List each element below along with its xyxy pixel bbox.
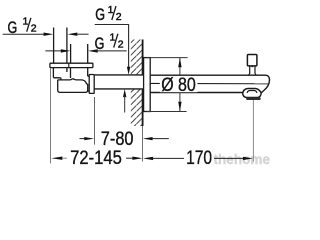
union flange plate <box>50 63 93 67</box>
label G1/2 no.2 <box>95 4 122 24</box>
outlet drop extension line <box>252 100 254 162</box>
knob stem flare <box>248 73 256 75</box>
label G1/2 no.1 <box>8 16 37 37</box>
svg-text:2: 2 <box>118 39 124 51</box>
aerator mesh dark bar <box>246 98 261 101</box>
wall hatch upper <box>131 40 143 75</box>
wall face line lower <box>142 89 144 126</box>
pipe A right thread arrow <box>68 33 78 36</box>
label 3 leader line <box>88 49 98 52</box>
dia 80 bottom extension line <box>147 111 187 113</box>
pipe B left thread arrow <box>45 50 63 52</box>
aerator insert dome <box>247 91 257 93</box>
7-80 dimension arrows <box>80 138 88 140</box>
diverter knob <box>247 55 257 66</box>
supply pipe B <box>70 44 72 63</box>
svg-text:thehome: thehome <box>214 152 271 168</box>
svg-text:Ø 80: Ø 80 <box>161 75 196 96</box>
spout feature line <box>151 82 270 84</box>
supply pipe A <box>53 28 55 64</box>
svg-text:72-145: 72-145 <box>70 148 122 169</box>
label 2 lower thread arrow <box>123 89 126 97</box>
knob stem <box>249 66 251 74</box>
flange plate divider <box>68 63 70 67</box>
aerator housing lower lip <box>243 90 264 97</box>
wall hatch lower <box>131 89 143 126</box>
spout top outline <box>150 75 269 90</box>
svg-text:2: 2 <box>31 23 37 35</box>
dia 80 text <box>160 76 198 92</box>
label G1/2 no.3 <box>95 32 124 53</box>
right union body <box>71 68 88 78</box>
svg-text:1: 1 <box>23 16 29 28</box>
dia 80 top extension line <box>147 57 188 59</box>
svg-text:G: G <box>95 5 105 24</box>
in-wall pipe top <box>94 74 143 76</box>
dia 80 dimension line <box>179 58 181 111</box>
svg-text:1: 1 <box>108 4 114 16</box>
wall face line upper <box>142 40 144 75</box>
svg-text:1: 1 <box>110 32 116 44</box>
aerator housing dome <box>243 89 262 94</box>
outlet stub <box>88 75 90 77</box>
wall face extension line below <box>142 126 144 162</box>
knob stem notch <box>252 66 254 68</box>
svg-text:170: 170 <box>186 148 212 169</box>
svg-text:7-80: 7-80 <box>101 129 134 150</box>
7-80 left extension line <box>94 97 96 145</box>
escutcheon flange <box>144 58 151 112</box>
spout bottom line <box>150 92 243 94</box>
union nut <box>89 75 94 94</box>
72-145 dimension line left <box>51 157 62 160</box>
svg-text:2: 2 <box>116 11 122 23</box>
170 dimension line <box>143 157 153 160</box>
in-wall pipe bottom <box>94 88 143 90</box>
72-145 left extension line <box>50 68 52 164</box>
left union body <box>53 68 67 78</box>
72-145 dimension line right <box>126 157 134 159</box>
elbow body <box>58 78 88 93</box>
label 2 leader polyline <box>95 25 129 69</box>
label 1 leader line <box>3 33 45 35</box>
